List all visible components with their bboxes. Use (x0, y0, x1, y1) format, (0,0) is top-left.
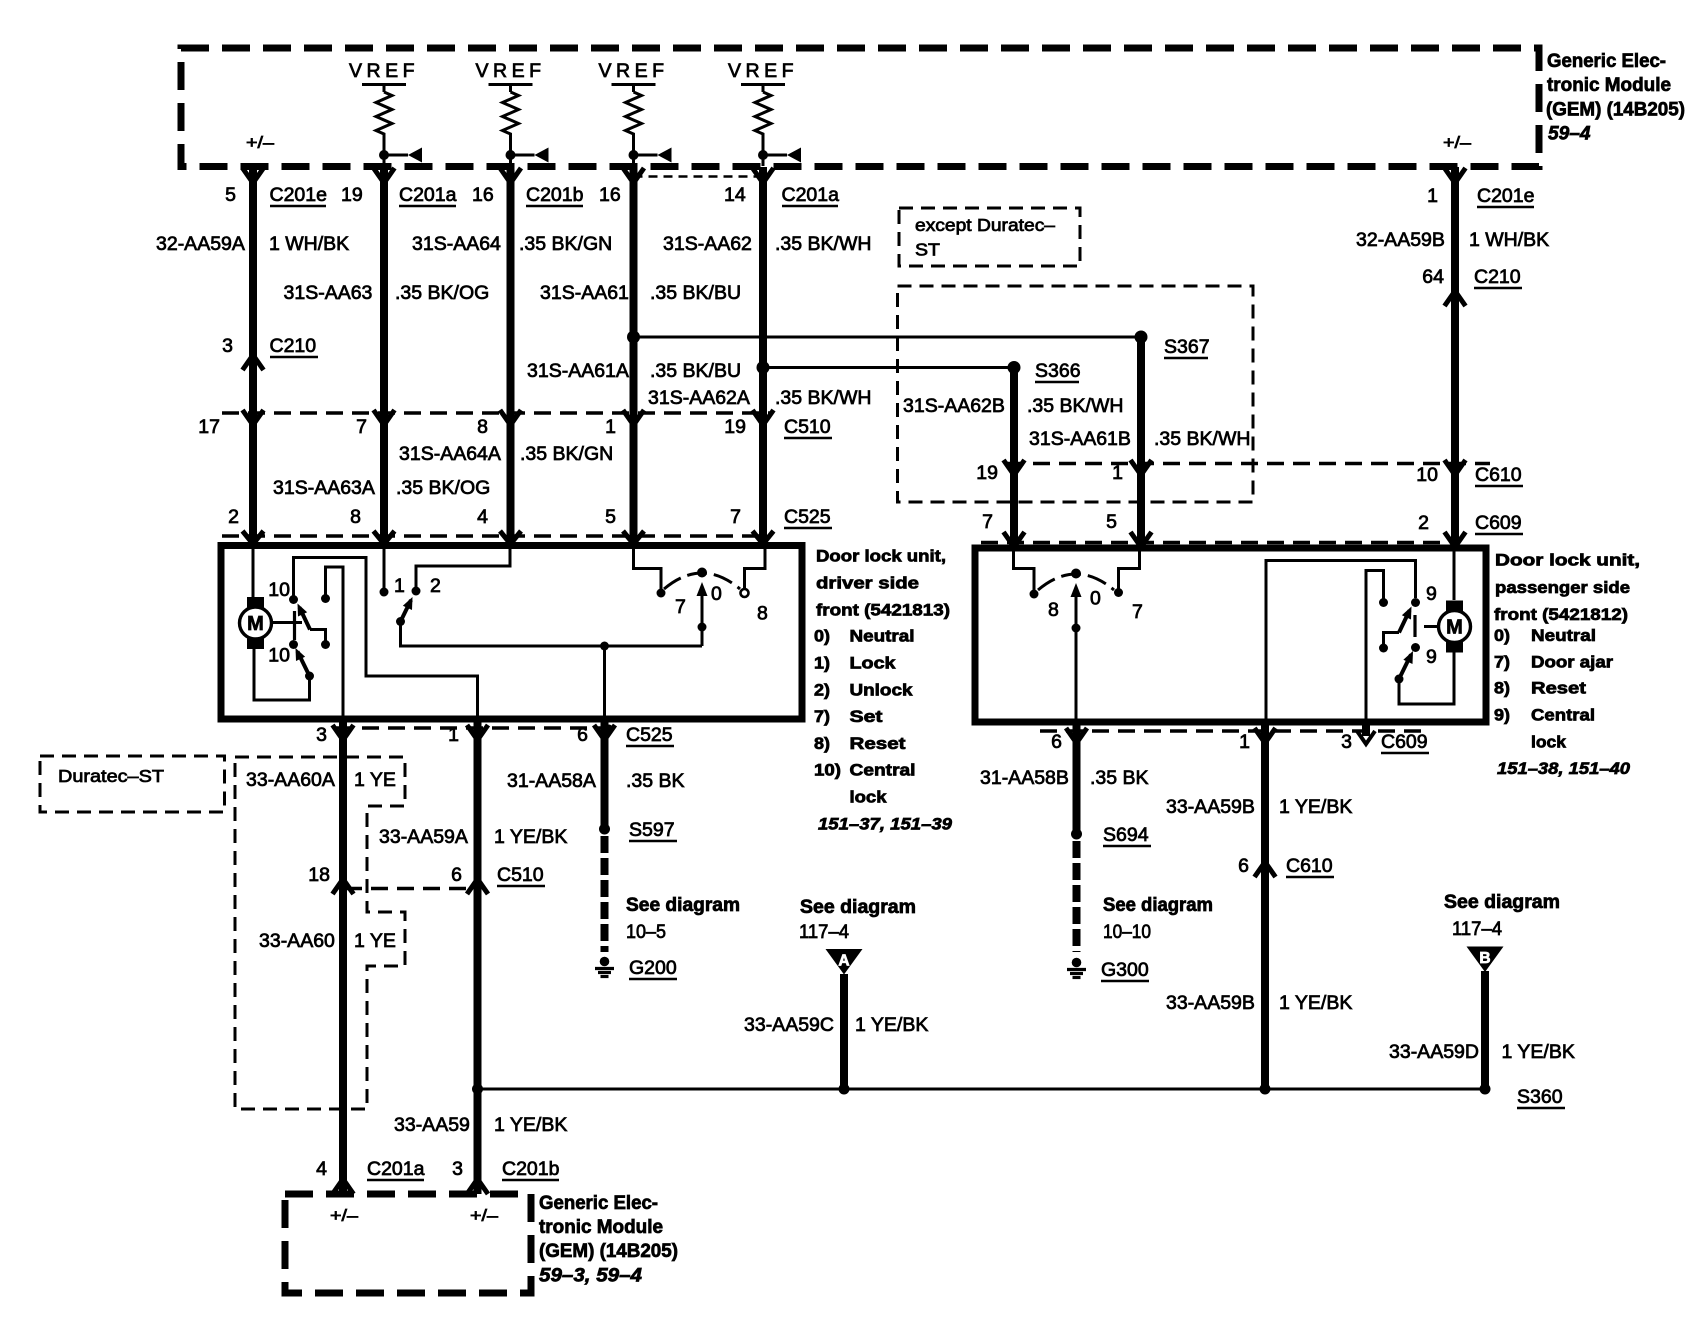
svg-text:.35 BK/GN: .35 BK/GN (520, 443, 613, 465)
svg-text:1: 1 (1112, 462, 1123, 484)
svg-text:10: 10 (1416, 464, 1438, 486)
svg-text:31S-AA61: 31S-AA61 (540, 282, 629, 304)
svg-text:2): 2) (814, 680, 830, 699)
svg-text:(GEM) (14B205): (GEM) (14B205) (539, 1240, 678, 1262)
motor M driver door lock (247, 597, 264, 609)
svg-text:7: 7 (730, 506, 741, 528)
svg-text:1): 1) (814, 654, 830, 673)
wire blade upper link (310, 630, 326, 645)
svg-text:VREF: VREF (475, 60, 545, 82)
svg-text:7: 7 (1132, 601, 1143, 623)
svg-text:10–10: 10–10 (1103, 921, 1151, 943)
svg-text:33-AA59: 33-AA59 (394, 1114, 470, 1136)
svg-text:1 YE/BK: 1 YE/BK (1279, 796, 1352, 818)
svg-text:C201a: C201a (782, 184, 840, 206)
svg-text:Central: Central (850, 761, 916, 780)
arrows down below driver box (333, 725, 354, 740)
svg-text:19: 19 (341, 184, 363, 206)
switch blade lower 10 (298, 652, 310, 677)
switch blade lower 9 (1399, 655, 1411, 680)
svg-text:9: 9 (1426, 646, 1437, 668)
svg-text:7: 7 (356, 416, 367, 438)
node junction p1 to S360 line (1260, 1084, 1271, 1095)
connector C525 dashed line (222, 534, 770, 538)
svg-text:.35 BK/WH: .35 BK/WH (1154, 428, 1250, 450)
outline dashed Duratec alternate region (235, 757, 405, 1109)
svg-text:6: 6 (1238, 855, 1249, 877)
svg-text:7: 7 (982, 511, 993, 533)
wire rail contact10-upper to pin1 exit (294, 558, 478, 720)
svg-text:Door ajar: Door ajar (1531, 653, 1613, 672)
svg-text:1: 1 (394, 575, 405, 597)
svg-text:Set: Set (850, 707, 883, 726)
svg-text:31-AA58A: 31-AA58A (507, 770, 596, 792)
wire motor armature bar passenger (1413, 615, 1416, 637)
svg-text:1 YE/BK: 1 YE/BK (855, 1014, 928, 1036)
svg-text:C609: C609 (1475, 512, 1522, 534)
svg-text:lock: lock (850, 787, 888, 806)
svg-text:VREF: VREF (349, 60, 419, 82)
svg-text:16: 16 (472, 184, 494, 206)
wire pin1-top to contact 1 (383, 549, 386, 592)
svg-text:7): 7) (1494, 653, 1510, 672)
wire pivot to common rail (401, 622, 703, 647)
svg-text:117–4: 117–4 (1452, 918, 1502, 940)
svg-text:See diagram: See diagram (1444, 891, 1560, 913)
svg-text:6: 6 (577, 724, 588, 746)
svg-text:C201b: C201b (502, 1158, 560, 1180)
svg-text:+/–: +/– (1443, 133, 1472, 152)
svg-text:18: 18 (308, 864, 330, 886)
svg-text:5: 5 (1106, 511, 1117, 533)
wire blade upper link passenger (1384, 633, 1400, 649)
rotary switch driver: arc (664, 573, 740, 589)
svg-text:7): 7) (814, 707, 830, 726)
svg-text:Reset: Reset (850, 734, 906, 753)
wire motor lead (271, 621, 302, 624)
svg-text:Neutral: Neutral (850, 627, 915, 646)
svg-text:.35 BK: .35 BK (1090, 767, 1149, 789)
svg-text:See diagram: See diagram (626, 894, 740, 916)
svg-text:tronic Module: tronic Module (539, 1216, 663, 1238)
svg-text:31S-AA62A: 31S-AA62A (648, 387, 750, 409)
svg-text:.35 BK/BU: .35 BK/BU (650, 360, 741, 382)
svg-text:7: 7 (675, 596, 686, 618)
wire 31S-AA61B (from S367) (1137, 337, 1145, 548)
contact 10 lower dot (289, 640, 298, 649)
connector C510 dashed line (222, 411, 770, 415)
svg-text:+/–: +/– (246, 133, 275, 152)
rotary switch passenger: contact 8 path (1014, 551, 1035, 594)
svg-text:C210: C210 (270, 335, 317, 357)
svg-text:6: 6 (451, 864, 462, 886)
svg-text:See diagram: See diagram (800, 896, 916, 918)
wire 31-AA58A (wC) (601, 719, 609, 831)
svg-text:.35 BK/OG: .35 BK/OG (395, 282, 489, 304)
node blade upper link end (321, 640, 330, 649)
ground G200 (600, 957, 610, 967)
contact 10 upper dot (289, 595, 298, 604)
svg-text:5: 5 (225, 184, 236, 206)
switch blade upper 9 (1399, 611, 1410, 633)
box door lock unit driver side front (5421813) (221, 546, 802, 720)
wire motor bottom loop passenger (1399, 651, 1454, 704)
contact 1 dot (380, 588, 389, 597)
svg-text:Generic Elec-: Generic Elec- (1547, 50, 1666, 72)
inner rect top passenger (1266, 561, 1416, 723)
svg-text:VREF: VREF (728, 60, 798, 82)
wire motor bottom loop (254, 649, 310, 700)
svg-text:31S-AA63A: 31S-AA63A (273, 477, 375, 499)
wire pin3 stub (1362, 722, 1370, 736)
svg-text:C610: C610 (1286, 855, 1333, 877)
wire w1 to motor inside box (252, 549, 255, 600)
svg-text:59–3, 59–4: 59–3, 59–4 (539, 1265, 642, 1287)
svg-text:.35 BK/WH: .35 BK/WH (1027, 395, 1123, 417)
module GEM bottom dashed box (285, 1194, 531, 1293)
connector C201 dashed link w4-w5 (634, 175, 769, 178)
wire stub to pin3 exit (326, 567, 344, 719)
connector C525 dashed line below box (336, 726, 610, 730)
svg-text:C201e: C201e (1477, 185, 1534, 207)
rotary switch driver: contact 7 path (634, 549, 662, 593)
arrow up at C610 mid (1255, 862, 1276, 877)
wire 31S-AA61 (w4) (630, 167, 638, 546)
splice S694 (1071, 829, 1082, 840)
svg-text:1 WH/BK: 1 WH/BK (269, 233, 349, 255)
svg-text:8): 8) (1494, 679, 1510, 698)
svg-text:64: 64 (1422, 266, 1444, 288)
svg-text:G200: G200 (629, 957, 677, 979)
svg-text:Central: Central (1531, 706, 1595, 725)
svg-text:9: 9 (1426, 583, 1437, 605)
arrows down below passenger box (1066, 728, 1087, 743)
splice S360 node (1480, 1084, 1491, 1095)
svg-text:.35 BK/WH: .35 BK/WH (775, 387, 871, 409)
svg-text:C609: C609 (1381, 731, 1428, 753)
svg-text:0): 0) (1494, 626, 1510, 645)
rotary switch passenger: wiper dot (1071, 569, 1081, 579)
svg-text:10: 10 (268, 645, 290, 667)
svg-text:Lock: Lock (850, 654, 897, 673)
svg-text:S360: S360 (1517, 1086, 1563, 1108)
svg-text:Generic Elec-: Generic Elec- (539, 1192, 658, 1214)
svg-text:31S-AA61A: 31S-AA61A (527, 360, 629, 382)
off-page connector A triangle (826, 949, 863, 975)
svg-text:S597: S597 (629, 819, 675, 841)
arrows down at C525 (243, 531, 264, 544)
svg-text:Neutral: Neutral (1531, 626, 1596, 645)
wire motor armature bar (293, 611, 296, 640)
svg-text:33-AA59B: 33-AA59B (1166, 796, 1255, 818)
svg-text:0: 0 (711, 583, 722, 605)
svg-text:33-AA60A: 33-AA60A (246, 769, 335, 791)
svg-text:1: 1 (1427, 185, 1438, 207)
svg-text:1 YE/BK: 1 YE/BK (1502, 1041, 1575, 1063)
connector C201 row arrows (down chevrons) (243, 168, 264, 183)
wire 31S-AA64 (w3) (507, 167, 515, 546)
svg-text:19: 19 (724, 416, 746, 438)
arrows up at C510 below (333, 879, 354, 894)
svg-text:33-AA60: 33-AA60 (259, 930, 335, 952)
svg-text:B: B (1479, 950, 1490, 967)
svg-text:1 YE: 1 YE (354, 930, 396, 952)
svg-text:See diagram: See diagram (1103, 894, 1213, 916)
svg-text:C610: C610 (1475, 464, 1522, 486)
svg-text:151–37, 151–39: 151–37, 151–39 (818, 815, 953, 834)
arrows down at C610 (1004, 460, 1025, 475)
svg-text:2: 2 (430, 575, 441, 597)
svg-text:1: 1 (605, 416, 616, 438)
svg-text:3: 3 (452, 1158, 463, 1180)
node junction wB to S360 line (472, 1084, 483, 1095)
wire motor top passenger (1453, 551, 1456, 600)
svg-text:S367: S367 (1164, 336, 1210, 358)
node stub end (321, 594, 330, 603)
wire .35 BK dashed to G300 (1073, 841, 1081, 952)
svg-text:33-AA59D: 33-AA59D (1389, 1041, 1479, 1063)
svg-text:32-AA59B: 32-AA59B (1356, 229, 1445, 251)
svg-text:0): 0) (814, 627, 830, 646)
svg-text:16: 16 (599, 184, 621, 206)
rotary switch driver: wiper dot (697, 568, 707, 578)
rotary switch driver: wiper arrow (697, 582, 708, 596)
wire 31S-AA62 (w5) (759, 167, 767, 546)
wire .35 BK dashed to ground (601, 836, 609, 952)
rotary switch driver: contact 8 path (745, 549, 766, 589)
wire stub to pin3 passenger (1366, 571, 1384, 723)
svg-text:VREF: VREF (598, 60, 668, 82)
svg-text:31S-AA64: 31S-AA64 (412, 233, 501, 255)
svg-text:4: 4 (477, 506, 488, 528)
box except Duratec-ST dashed (899, 208, 1080, 266)
svg-text:G300: G300 (1101, 959, 1149, 981)
svg-text:front (5421812): front (5421812) (1494, 605, 1628, 624)
wire 31S-AA62B (from S366) (1010, 368, 1018, 549)
svg-text:.35 BK: .35 BK (626, 770, 685, 792)
svg-text:59–4: 59–4 (1548, 122, 1591, 144)
wire 32-AA59A (w1) (249, 167, 257, 546)
connector C609 dashed line below box (1040, 729, 1430, 733)
svg-text:5: 5 (605, 506, 616, 528)
svg-text:31S-AA62B: 31S-AA62B (903, 395, 1005, 417)
rotary switch passenger: wiper arrow (1071, 583, 1082, 597)
svg-text:1: 1 (1239, 731, 1250, 753)
svg-text:2: 2 (1418, 512, 1429, 534)
wire splice S360 horizontal (478, 1088, 1486, 1091)
svg-text:0: 0 (1090, 588, 1101, 610)
node blade lower end (305, 672, 314, 681)
svg-text:8: 8 (757, 603, 768, 625)
svg-text:Reset: Reset (1531, 679, 1586, 698)
arrows down at C609 (1004, 532, 1025, 547)
connector C510 dashed line below (345, 887, 478, 891)
svg-text:151–38, 151–40: 151–38, 151–40 (1497, 759, 1631, 778)
box Duratec-ST dashed (40, 756, 225, 812)
svg-text:31S-AA63: 31S-AA63 (284, 282, 373, 304)
svg-text:driver side: driver side (816, 574, 919, 593)
svg-text:C201b: C201b (526, 184, 584, 206)
svg-text:33-AA59B: 33-AA59B (1166, 992, 1255, 1014)
svg-text:10–5: 10–5 (626, 921, 666, 943)
node lock/unlock pivot (396, 617, 405, 626)
svg-text:.35 BK/OG: .35 BK/OG (396, 477, 490, 499)
wire 33-AA60 (wA) (339, 719, 347, 1194)
box door lock unit passenger side front (5421812) (975, 548, 1486, 722)
svg-text:C201a: C201a (367, 1158, 425, 1180)
svg-text:10): 10) (814, 761, 841, 780)
wire 32-AA59B (right) (1451, 167, 1459, 548)
svg-text:C525: C525 (784, 506, 831, 528)
svg-text:C210: C210 (1474, 266, 1521, 288)
svg-text:C201e: C201e (270, 184, 327, 206)
svg-text:19: 19 (976, 462, 998, 484)
svg-text:6: 6 (1051, 731, 1062, 753)
arrow up on w1 at C210 (243, 355, 264, 370)
wire 31-AA58B (p6) (1073, 722, 1081, 836)
node junction A wire to S360 (839, 1084, 850, 1095)
rotary switch passenger: contact 7 path (1119, 551, 1140, 593)
svg-text:8: 8 (477, 416, 488, 438)
svg-text:117–4: 117–4 (799, 921, 849, 943)
svg-text:S366: S366 (1035, 360, 1081, 382)
svg-text:C201a: C201a (399, 184, 457, 206)
svg-text:tronic Module: tronic Module (1547, 74, 1671, 96)
svg-text:3: 3 (222, 335, 233, 357)
node stub end passenger (1379, 598, 1388, 607)
svg-text:except Duratec–: except Duratec– (915, 215, 1055, 235)
svg-text:31S-AA62: 31S-AA62 (663, 233, 752, 255)
wire pin2-top jog to contact 2 (416, 549, 510, 591)
wire wC exit (603, 646, 606, 719)
motor M passenger door lock (1446, 601, 1463, 613)
arrows up into GEM bottom (333, 1179, 354, 1194)
node blade link end passenger (1379, 644, 1388, 653)
contact 2 dot (412, 587, 421, 596)
svg-text:2: 2 (228, 506, 239, 528)
svg-text:Door lock unit,: Door lock unit, (816, 547, 946, 566)
svg-text:33-AA59A: 33-AA59A (379, 826, 468, 848)
svg-text:8: 8 (1048, 599, 1059, 621)
svg-text:3: 3 (316, 724, 327, 746)
svg-text:31-AA58B: 31-AA58B (980, 767, 1069, 789)
svg-text:.35 BK/GN: .35 BK/GN (519, 233, 612, 255)
svg-text:A: A (838, 953, 849, 970)
switch blade lock/unlock (401, 600, 412, 622)
node blade lower end passenger (1395, 675, 1404, 684)
splice S597 (599, 824, 610, 835)
wire 33-AA59 (wB) (474, 719, 482, 1194)
svg-text:31S-AA61B: 31S-AA61B (1029, 428, 1131, 450)
svg-text:4: 4 (316, 1158, 327, 1180)
svg-text:10: 10 (268, 579, 290, 601)
svg-text:1 YE/BK: 1 YE/BK (1279, 992, 1352, 1014)
svg-text:.35 BK/WH: .35 BK/WH (775, 233, 871, 255)
svg-text:1: 1 (448, 724, 459, 746)
wire 31S-AA63 (w2) (380, 167, 388, 546)
svg-text:C510: C510 (497, 864, 544, 886)
svg-text:passenger side: passenger side (1495, 578, 1630, 597)
svg-text:31S-AA64A: 31S-AA64A (399, 443, 501, 465)
svg-text:1 YE/BK: 1 YE/BK (494, 826, 567, 848)
wire motor lead passenger (1424, 625, 1439, 628)
svg-text:+/–: +/– (470, 1206, 499, 1225)
svg-text:14: 14 (724, 184, 746, 206)
rotary switch passenger: arc (1038, 574, 1114, 590)
svg-text:32-AA59A: 32-AA59A (156, 233, 245, 255)
svg-text:3: 3 (1341, 731, 1352, 753)
svg-text:C510: C510 (784, 416, 831, 438)
svg-text:(GEM) (14B205): (GEM) (14B205) (1546, 99, 1685, 121)
switch blade upper 10 (300, 608, 311, 630)
svg-text:1 WH/BK: 1 WH/BK (1469, 229, 1549, 251)
wire tap to splice S367 (634, 336, 1142, 339)
wire 33-AA59D (1481, 971, 1489, 1089)
svg-text:+/–: +/– (330, 1206, 359, 1225)
svg-text:C525: C525 (626, 724, 673, 746)
svg-text:S694: S694 (1103, 824, 1149, 846)
wire 33-AA59C (840, 974, 848, 1089)
connector C610 dashed line (1007, 462, 1490, 466)
off-page connector B triangle (1467, 947, 1504, 973)
svg-text:9): 9) (1494, 706, 1510, 725)
connector C609 dashed line (981, 541, 1442, 545)
svg-text:8): 8) (814, 734, 830, 753)
svg-text:.35 BK/BU: .35 BK/BU (650, 282, 741, 304)
svg-text:Unlock: Unlock (850, 680, 914, 699)
svg-text:front (5421813): front (5421813) (816, 601, 950, 620)
module GEM top dashed box (Generic Electronic Module 14B205) (181, 48, 1539, 167)
svg-text:M: M (247, 613, 264, 635)
arrow up on right wire at C210 (1445, 291, 1466, 306)
svg-text:lock: lock (1531, 733, 1567, 752)
ground G300 (1072, 958, 1082, 968)
svg-text:Duratec–ST: Duratec–ST (58, 766, 164, 786)
wire tap to splice S366 (763, 366, 1014, 369)
svg-text:33-AA59C: 33-AA59C (744, 1014, 834, 1036)
contact 9 lower dot (1411, 643, 1420, 652)
box around splices thin dashed (898, 286, 1254, 502)
svg-text:8: 8 (350, 506, 361, 528)
svg-text:ST: ST (915, 240, 940, 260)
contact 9 upper dot (1411, 598, 1420, 607)
arrows down at C510 (243, 410, 264, 425)
svg-text:Door lock unit,: Door lock unit, (1495, 551, 1640, 570)
svg-text:M: M (1446, 617, 1463, 639)
svg-text:1 YE/BK: 1 YE/BK (494, 1114, 567, 1136)
svg-text:17: 17 (198, 416, 220, 438)
svg-text:1 YE: 1 YE (354, 769, 396, 791)
wire 33-AA59B (p1) (1261, 722, 1269, 1089)
node junction wC (600, 642, 609, 651)
